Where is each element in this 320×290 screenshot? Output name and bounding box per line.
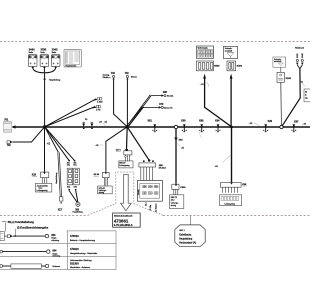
svg-text:749: 749 (125, 72, 130, 75)
svg-text:strang: strang (99, 191, 104, 194)
svg-text:9-75.140.2842-A: 9-75.140.2842-A (114, 224, 133, 227)
svg-text:K67: K67 (294, 121, 299, 123)
svg-text:(2): (2) (105, 121, 108, 123)
svg-text:sicherung: sicherung (52, 255, 60, 257)
svg-text:2 A02: 2 A02 (97, 100, 103, 103)
svg-text:Leitungsstrg: Leitungsstrg (119, 164, 129, 167)
svg-text:473661: 473661 (114, 218, 129, 223)
svg-text:42 83: 42 83 (94, 173, 100, 176)
svg-text:761: 761 (4, 119, 9, 122)
svg-text:K64: K64 (215, 120, 220, 123)
svg-text:.23: .23 (99, 121, 103, 123)
svg-text:16q: 16q (67, 165, 70, 167)
svg-text:X17: X17 (58, 208, 63, 211)
svg-text:Heckauslauf (A): Heckauslauf (A) (179, 242, 196, 245)
svg-text:DR-Mod: DR-Mod (159, 168, 166, 170)
svg-text:-.06: -.06 (249, 123, 254, 125)
svg-text:-03: -03 (215, 166, 219, 168)
svg-text:Hauptstromkr.: Hauptstromkr. (65, 64, 77, 67)
svg-text:24-2: 24-2 (171, 200, 175, 202)
svg-text:31 16qmm: 31 16qmm (156, 203, 158, 212)
svg-text:Hauptstrang: Hauptstrang (179, 238, 193, 241)
svg-text:Masse St.: Masse St. (164, 107, 173, 110)
svg-text:Kabelbaum: Kabelbaum (179, 233, 191, 236)
svg-text:16q: 16q (73, 165, 76, 167)
svg-text:Leitungsstrg: Leitungsstrg (225, 202, 235, 205)
svg-text:Rückla. a: Rückla. a (103, 77, 112, 79)
svg-text:K65: K65 (179, 139, 184, 141)
svg-text:C300: C300 (180, 187, 186, 189)
svg-text:683: 683 (51, 234, 56, 237)
svg-text:Anlasser: Anlasser (52, 265, 60, 268)
svg-text:-.04: -.04 (302, 123, 307, 125)
svg-text:698: 698 (163, 91, 168, 94)
svg-text:K650: K650 (214, 66, 220, 68)
svg-text:E-: E- (305, 94, 307, 96)
svg-text:Ltg: Ltg (305, 96, 308, 99)
svg-text:K245: K245 (286, 77, 292, 80)
svg-text:Hauptleitung: Hauptleitung (73, 211, 83, 214)
svg-text:.01: .01 (300, 82, 304, 84)
svg-text:H60-75: H60-75 (171, 197, 177, 199)
svg-text:.35: .35 (181, 147, 185, 149)
svg-text:K61: K61 (148, 121, 153, 123)
svg-text:30: 30 (85, 119, 88, 121)
svg-text:30 16q: 30 16q (150, 205, 152, 211)
svg-text:740: 740 (111, 72, 116, 75)
svg-text:Batte.: Batte. (41, 51, 46, 54)
svg-text:K621: K621 (297, 53, 299, 57)
svg-text:sicherung: sicherung (51, 240, 59, 242)
svg-text:anschluß: anschluß (225, 50, 233, 52)
svg-text:X45: X45 (67, 187, 70, 189)
svg-text:473020: 473020 (70, 247, 79, 251)
svg-text:Rückband: Rückband (295, 48, 304, 50)
svg-text:Zentral: Zentral (137, 189, 140, 195)
svg-text:-02: -02 (47, 143, 51, 145)
svg-text:Stück-Schaltbuch: Stück-Schaltbuch (114, 215, 133, 218)
svg-text:K35: K35 (242, 184, 247, 186)
svg-text:Startrelais - Anlasser: Startrelais - Anlasser (70, 266, 90, 269)
svg-text:684: 684 (52, 250, 57, 253)
svg-text:24: 24 (305, 91, 307, 93)
svg-text:Hauptsicherung - Startrelais: Hauptsicherung - Startrelais (70, 252, 98, 255)
svg-text:24.1: 24.1 (146, 203, 148, 207)
svg-text:-.02: -.02 (200, 84, 205, 86)
svg-text:K69: K69 (268, 121, 273, 123)
svg-text:K400: K400 (237, 65, 243, 68)
svg-text:400 1: 400 1 (179, 230, 185, 232)
svg-text:Hauptleitung: Hauptleitung (55, 173, 58, 184)
svg-text:-.05: -.05 (95, 145, 99, 147)
svg-text:Sicherungsk.: Sicherungsk. (198, 48, 209, 50)
svg-text:strang: strang (171, 204, 176, 207)
svg-text:Hauptleitung: Hauptleitung (49, 79, 60, 82)
svg-text:670: 670 (159, 103, 164, 106)
svg-text:K60: K60 (181, 121, 186, 123)
svg-text:Batte.: Batte. (29, 51, 34, 54)
svg-text:X46: X46 (74, 187, 77, 189)
svg-text:24 F1: 24 F1 (116, 150, 121, 152)
svg-text:X28: X28 (32, 174, 37, 176)
svg-text:K640: K640 (302, 53, 304, 57)
svg-text:762: 762 (7, 145, 12, 147)
svg-text:30(+) Potentialleitung: 30(+) Potentialleitung (8, 220, 35, 224)
svg-text:Batterie - Hauptsicherung: Batterie - Hauptsicherung (70, 239, 96, 242)
svg-text:Batte.: Batte. (52, 51, 57, 54)
svg-text:473019: 473019 (70, 234, 79, 238)
svg-text:Leitungsstrg: Leitungsstrg (37, 189, 48, 192)
svg-text:521303: 521303 (70, 261, 79, 265)
svg-text:Leitungs-: Leitungs- (171, 201, 179, 204)
svg-text:Masse: Masse (131, 76, 138, 78)
svg-text:K66: K66 (199, 121, 204, 123)
svg-text:(i) Kurzübersichtsangabe: (i) Kurzübersichtsangabe (17, 226, 49, 230)
svg-text:3 F4: 3 F4 (96, 110, 101, 112)
svg-text:Steckd.: Steckd. (167, 95, 174, 98)
